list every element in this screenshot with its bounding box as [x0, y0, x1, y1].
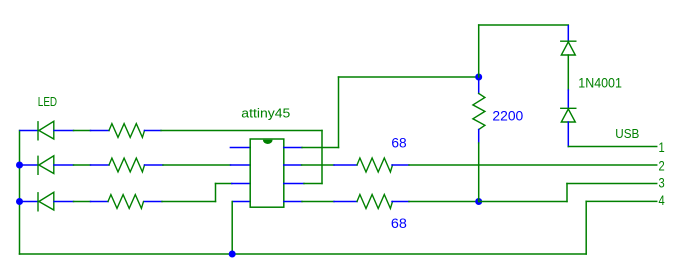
wire row3 R3 to jog [145, 201, 216, 203]
diode LED3 [38, 192, 54, 211]
svg-text:LED: LED [38, 95, 57, 109]
svg-text:4: 4 [659, 193, 666, 208]
wire bottom ground run [20, 253, 587, 255]
resistor R1 [109, 124, 145, 138]
wire row3 jog to IC pin3L [216, 183, 251, 185]
node left rail row3 [16, 198, 23, 205]
wire USB line4 [586, 200, 657, 202]
svg-text:3: 3 [659, 175, 665, 190]
wire IC pin2R to R4 [284, 164, 357, 166]
wire node to jog up [479, 201, 567, 203]
diode LED2 [38, 156, 54, 175]
svg-text:USB: USB [615, 126, 639, 141]
wire top left drop [478, 25, 480, 77]
svg-text:2: 2 [659, 158, 665, 173]
wire USB line1 [568, 146, 656, 148]
wire IC pin1L stub [230, 147, 250, 149]
wire IC pin1R [284, 147, 339, 149]
wire 2200 bottom lead [478, 130, 480, 202]
wire line4 drop to bottom [585, 201, 587, 254]
wire row2 LED2 to R2 [54, 164, 109, 166]
resistor R3 [108, 195, 144, 209]
wire 2200 top lead [478, 79, 480, 94]
diode D1 1N4001 [561, 41, 576, 55]
wire row2 R4 to USB line2 [392, 164, 657, 166]
wire D2 to USB line1 [567, 122, 569, 147]
wire row1 R1 to corner [145, 130, 323, 132]
resistor R2 [109, 158, 145, 172]
wire row3 LED3 to R3 [54, 201, 108, 203]
wire row2 LED2 anode lead [20, 164, 38, 166]
node bottom of 2200 [475, 198, 482, 205]
wire row3 LED3 anode lead [20, 201, 38, 203]
diode D2 1N4001 [561, 108, 576, 122]
wire jog up to USB line3 [566, 184, 568, 202]
wire IC pin4R to R5 [284, 201, 357, 203]
wire row1 drop to pin3R [321, 131, 323, 184]
wire IC pin4L to bottom [232, 202, 250, 255]
wire row1 LED1 to R1 [54, 130, 109, 132]
diode LED1 [38, 121, 54, 140]
wire row2 R2 to IC pin2L [145, 164, 251, 166]
node bottom junction [229, 251, 236, 258]
U1 pin1 notch [263, 140, 273, 144]
wire row1 LED1 anode lead [20, 130, 38, 132]
wire pin1R top run [339, 76, 479, 78]
svg-text:1N4001: 1N4001 [578, 76, 622, 91]
svg-text:2200: 2200 [492, 108, 523, 123]
svg-text:1: 1 [659, 140, 665, 155]
resistor R5 68 [357, 195, 393, 209]
wire top run [479, 24, 569, 26]
svg-text:attiny45: attiny45 [241, 106, 290, 121]
node left rail row2 [16, 162, 23, 169]
svg-text:68: 68 [391, 136, 406, 151]
wire row3 jog up [215, 184, 217, 202]
resistor R4 68 [357, 158, 393, 172]
resistor R6 2200 [473, 93, 485, 129]
wire row4 R5 to node [392, 201, 479, 203]
wire USB line3 [567, 183, 657, 185]
node top of 2200 [475, 74, 482, 81]
op-amp U1 attiny45 body [250, 139, 284, 207]
wire IC pin3R [284, 183, 322, 185]
wire D1 to D2 [567, 55, 569, 108]
wire pin1R riser [338, 77, 340, 148]
wire left rail vertical [19, 131, 21, 255]
svg-text:68: 68 [391, 216, 407, 231]
wire diode chain top lead [567, 26, 569, 42]
